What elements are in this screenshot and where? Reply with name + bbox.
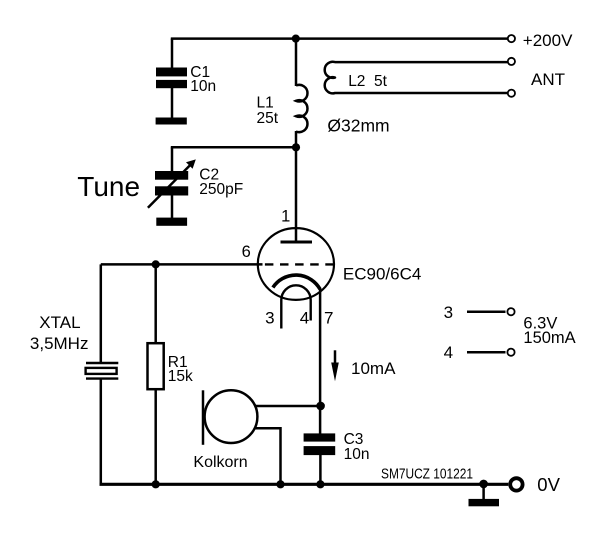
wire heater terminal 3 (467, 311, 506, 314)
arrow C2 trimmer (148, 159, 196, 207)
wire top rail +200V (171, 37, 508, 40)
svg-text:7: 7 (324, 308, 333, 327)
svg-text:250pF: 250pF (199, 181, 243, 198)
wire C1 top drop (171, 39, 174, 69)
node junction R1 / bottom rail (152, 480, 160, 488)
svg-text:10mA: 10mA (351, 359, 396, 378)
wire C3 bottom (319, 455, 322, 484)
inductor L2 (325, 62, 508, 94)
grid dashed line (265, 263, 334, 265)
node junction mic / bottom rail (276, 480, 284, 488)
wire bottom rail 0V (100, 483, 509, 486)
node junction mic / C3 (316, 402, 325, 411)
ground symbol (469, 484, 500, 506)
wire XTAL bottom drop (100, 379, 103, 486)
wire mic bottom (255, 428, 281, 484)
svg-text:4: 4 (444, 343, 453, 362)
node junction top rail / L1 (292, 35, 300, 43)
wire grid rail to pin 6 (101, 263, 263, 266)
wire tank rail (171, 146, 296, 149)
svg-text:0V: 0V (537, 474, 560, 495)
inductor L1 (296, 85, 307, 132)
wire grid drop left XTAL (100, 264, 103, 363)
microphone Kolkorn (203, 390, 257, 445)
wire R1 bottom (154, 389, 157, 484)
svg-text:L1: L1 (257, 94, 274, 111)
svg-text:SM7UCZ 101221: SM7UCZ 101221 (381, 467, 473, 483)
svg-text:L2 5t: L2 5t (348, 73, 387, 90)
svg-text:3: 3 (444, 303, 453, 322)
terminal 4 (507, 349, 514, 356)
wire L1 bottom (295, 131, 298, 147)
cathode arc (273, 275, 320, 289)
ground C1 (156, 118, 187, 125)
resistor R1 (148, 343, 164, 389)
wire pin7 cathode to C3 (319, 288, 322, 434)
wire C1 bottom (171, 88, 174, 119)
wire pin1 anode (295, 147, 298, 241)
svg-text:ANT: ANT (531, 70, 565, 89)
svg-text:150mA: 150mA (523, 329, 575, 347)
terminal 0V (510, 478, 522, 490)
svg-text:3: 3 (265, 308, 274, 327)
anode plate bar (281, 241, 313, 244)
svg-text:1: 1 (281, 207, 290, 225)
crystal XTAL (86, 363, 119, 379)
wire C2 top drop (171, 147, 174, 172)
terminal ANT bottom (508, 90, 515, 97)
wire C2 bottom (171, 196, 174, 220)
node junction C3 / bottom rail (316, 480, 324, 488)
capacitor C3 (304, 433, 336, 455)
ground C2 (156, 218, 187, 226)
arrow 10mA (331, 350, 339, 381)
svg-text:25t: 25t (257, 110, 279, 127)
svg-text:+200V: +200V (523, 31, 573, 50)
wire mic top to C3 node (255, 405, 321, 408)
svg-text:Ø32mm: Ø32mm (327, 116, 389, 136)
tube envelope U1 (258, 228, 334, 300)
capacitor C1 (156, 68, 187, 89)
node junction ground / bottom rail (479, 480, 488, 489)
svg-text:15k: 15k (168, 368, 193, 385)
terminal ANT top (508, 58, 515, 65)
svg-text:10n: 10n (344, 446, 370, 463)
svg-text:4: 4 (300, 308, 309, 327)
svg-text:XTAL: XTAL (39, 313, 80, 332)
svg-text:3,5MHz: 3,5MHz (30, 334, 89, 353)
terminal +200V (508, 35, 515, 42)
svg-text:Kolkorn: Kolkorn (193, 454, 247, 471)
heater dome (281, 285, 310, 328)
terminal 3 (507, 308, 514, 315)
svg-text:EC90/6C4: EC90/6C4 (343, 265, 421, 284)
svg-text:Tune: Tune (77, 171, 140, 202)
svg-text:10n: 10n (190, 78, 216, 95)
wire heater terminal 4 (467, 351, 506, 354)
capacitor C2 variable (155, 171, 188, 196)
wire L1 top (295, 39, 298, 86)
node junction grid rail / R1 (152, 260, 160, 268)
node junction tank / pin1 (292, 143, 300, 151)
wire R1 top (154, 264, 157, 344)
svg-text:6: 6 (242, 243, 251, 261)
